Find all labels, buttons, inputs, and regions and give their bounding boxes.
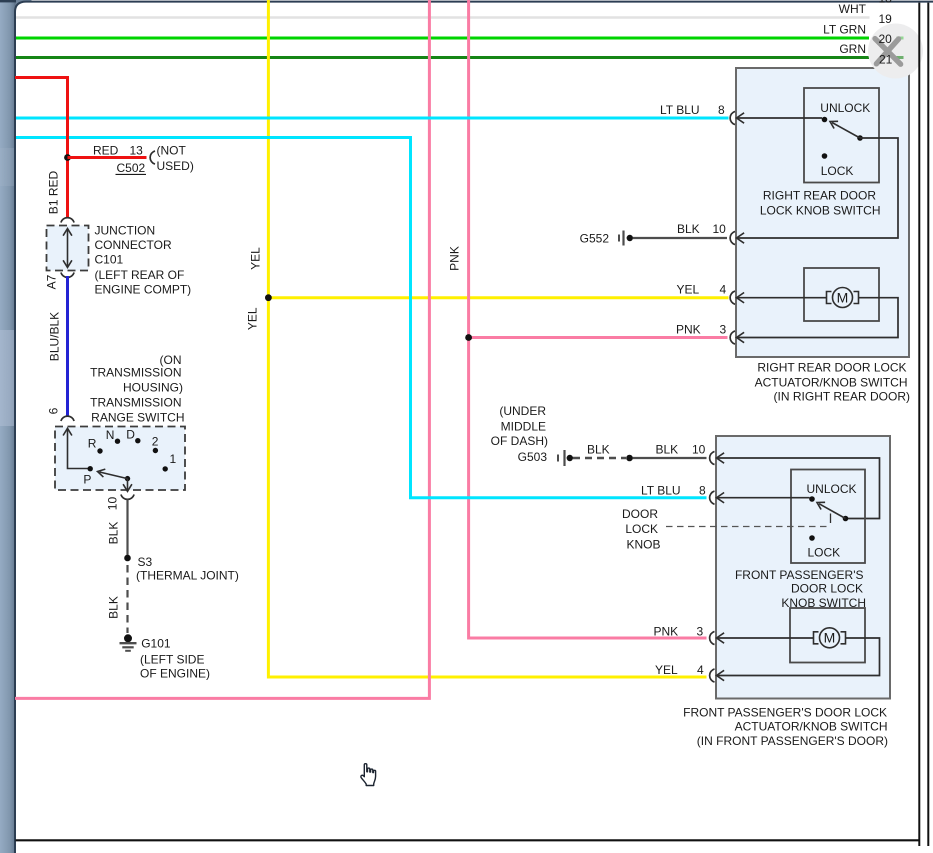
svg-text:19: 19 [879,12,893,26]
svg-text:C502: C502 [117,161,146,175]
wire YEL 4 into motor [730,291,735,304]
svg-text:YEL: YEL [677,283,700,297]
junction node on YEL wire [265,294,272,301]
svg-text:PNK: PNK [654,625,679,639]
svg-text:TRANSMISSION: TRANSMISSION [90,366,181,380]
ground G101 [124,634,132,642]
svg-text:GRN: GRN [839,42,866,56]
svg-text:LT GRN: LT GRN [823,22,866,36]
connector C502 [150,151,155,164]
svg-text:BLU/BLK: BLU/BLK [48,312,62,361]
transmission range switch (dashed box) [55,427,185,491]
svg-text:3: 3 [697,625,704,639]
svg-text:M: M [824,630,836,646]
splice S3 [124,555,131,562]
panel top-left rounded corner backdrop [16,0,32,16]
junction connector C101 (dashed box) [47,226,89,271]
motor M [820,628,840,648]
svg-text:D: D [126,428,135,442]
wire LT BLU 8 into box [710,491,715,504]
wire LT BLU 8 into box [730,111,735,124]
svg-text:YEL: YEL [249,247,263,270]
contact D [135,438,140,443]
svg-text:8: 8 [699,484,706,498]
motor M [833,288,853,308]
svg-text:LOCK KNOB SWITCH: LOCK KNOB SWITCH [760,204,881,218]
switch pivot [125,476,130,481]
svg-text:R: R [88,437,97,451]
diagram right border [918,3,920,846]
svg-text:RIGHT REAR DOOR LOCK: RIGHT REAR DOOR LOCK [757,361,906,375]
svg-text:UNLOCK: UNLOCK [820,101,870,115]
unlock contact [822,117,828,123]
svg-text:21: 21 [879,53,893,67]
svg-text:1: 1 [170,452,177,466]
svg-text:10: 10 [106,497,120,511]
svg-text:FRONT PASSENGER'S: FRONT PASSENGER'S [735,568,864,582]
wire YEL vertical from top [268,0,706,677]
door lock actuator motor box [804,268,879,321]
svg-text:USED): USED) [157,159,194,173]
dashed BLK wire from G503 [573,457,626,459]
svg-text:DOOR: DOOR [622,507,658,521]
front passenger door lock knob switch (inner box) [791,470,865,564]
svg-text:M: M [837,289,849,305]
svg-text:BLK: BLK [677,222,700,236]
junction node on RED wire [64,154,71,161]
svg-text:(LEFT SIDE: (LEFT SIDE [140,653,204,667]
connector arc below C101 [61,273,74,278]
svg-text:13: 13 [130,143,144,157]
unlock contact [809,496,815,502]
svg-text:BLK: BLK [587,443,610,457]
svg-text:KNOB: KNOB [626,537,660,551]
svg-text:PNK: PNK [676,323,701,337]
svg-text:(LEFT REAR OF: (LEFT REAR OF [95,268,185,282]
svg-text:B1 RED: B1 RED [47,170,61,214]
connector arc above C101 [61,218,74,223]
lock contact [822,153,828,159]
wire PNK #2 [469,0,707,638]
wire LT BLU #2 (to front passenger door) [16,138,707,498]
svg-text:10: 10 [692,443,706,457]
svg-text:ENGINE COMPT): ENGINE COMPT) [95,282,192,296]
svg-text:RANGE SWITCH: RANGE SWITCH [91,411,184,425]
contact 2 [153,448,158,453]
switch common contact [857,135,863,141]
contact N [115,439,120,444]
wire LT GRN (20) [16,37,869,40]
front passenger door lock actuator/knob switch box [716,436,890,699]
splice node [626,455,633,462]
svg-text:OF ENGINE): OF ENGINE) [140,667,210,681]
lever toward unlock [819,504,846,519]
svg-text:JUNCTION: JUNCTION [95,224,156,238]
svg-text:(IN RIGHT REAR DOOR): (IN RIGHT REAR DOOR) [774,390,910,404]
svg-text:(IN FRONT PASSENGER'S DOOR): (IN FRONT PASSENGER'S DOOR) [697,734,888,748]
wire BLK 10 [633,457,707,459]
wire RED from left edge [15,78,68,218]
LT GRN wire stub under close button [897,37,904,40]
svg-text:6: 6 [47,407,61,414]
svg-text:UNLOCK: UNLOCK [807,482,857,496]
switch input arm (up arrow) [68,430,89,469]
svg-text:CONNECTOR: CONNECTOR [95,238,172,252]
right rear door lock actuator/knob switch box [736,68,909,357]
svg-text:ACTUATOR/KNOB SWITCH: ACTUATOR/KNOB SWITCH [755,376,908,390]
window top bar [0,0,16,2]
svg-text:10: 10 [713,222,727,236]
svg-text:2: 2 [152,435,159,449]
contact R [97,448,102,453]
motor return route to PNK pin [737,298,899,338]
svg-text:LOCK: LOCK [625,522,658,536]
svg-text:8: 8 [718,103,725,117]
svg-text:(UNDER: (UNDER [499,404,546,418]
wire PNK #1 (to lower-left) [15,0,429,698]
svg-text:C101: C101 [95,252,124,266]
svg-text:LOCK: LOCK [808,546,841,560]
svg-text:ACTUATOR/KNOB SWITCH: ACTUATOR/KNOB SWITCH [735,720,888,734]
mouse cursor (hand pointer) [361,764,376,786]
svg-text:(NOT: (NOT [157,143,187,157]
svg-text:YEL: YEL [655,663,678,677]
route from switch common to BLK pin [737,138,899,238]
svg-text:G552: G552 [580,231,610,245]
svg-text:DOOR LOCK: DOOR LOCK [791,582,863,596]
svg-text:A7: A7 [45,274,59,289]
wire RED 13 stub to C502 [68,156,147,159]
svg-text:3: 3 [720,323,727,337]
switch output (down arrow) [127,479,129,490]
svg-text:20: 20 [879,32,893,46]
svg-text:N: N [106,428,115,442]
svg-text:PNK: PNK [448,246,462,271]
svg-text:BLK: BLK [107,522,121,545]
double-headed arrow inside C101 [67,230,69,267]
close button [868,24,923,79]
contact 1 [163,466,168,471]
wire BLU/BLK [66,276,69,416]
svg-text:BLK: BLK [107,596,121,619]
lock contact [809,535,815,541]
svg-text:RIGHT REAR DOOR: RIGHT REAR DOOR [763,189,876,203]
junction node on PNK #2 [465,334,472,341]
lever toward unlock [832,123,860,139]
svg-text:HOUSING): HOUSING) [123,381,183,395]
switch lever pointing at P [100,472,128,479]
connector arc above transmission range switch [61,416,74,421]
svg-text:G503: G503 [518,450,548,464]
diagram bottom border [16,839,920,841]
svg-text:4: 4 [720,283,727,297]
svg-text:LT BLU: LT BLU [641,484,681,498]
svg-text:TRANSMISSION: TRANSMISSION [90,396,181,410]
svg-text:P: P [83,473,91,487]
svg-text:OF DASH): OF DASH) [491,434,548,448]
GRN wire stub under close button [897,56,904,59]
svg-text:WHT: WHT [839,2,867,16]
wire LT BLU #1 (horizontal, to right rear door) [16,117,729,120]
ground G503 symbol [557,455,559,462]
svg-text:RED: RED [93,143,119,157]
svg-text:LT BLU: LT BLU [660,103,700,117]
svg-text:MIDDLE: MIDDLE [501,420,546,434]
lever tick [830,514,832,524]
svg-text:YEL: YEL [246,307,260,330]
wire BLK 10 from G552 [633,237,727,239]
svg-text:FRONT PASSENGER'S DOOR LOCK: FRONT PASSENGER'S DOOR LOCK [683,705,887,719]
BLK 10 pin into box, route to switch common [710,451,715,464]
door lock actuator motor box [790,608,865,663]
wire WHT (19) [16,16,870,19]
dashed BLK wire to G101 [126,565,128,633]
switch common contact [843,516,849,522]
svg-text:LOCK: LOCK [821,164,854,178]
contact P [88,466,93,471]
svg-text:BLK: BLK [656,443,679,457]
svg-text:(THERMAL JOINT): (THERMAL JOINT) [136,569,239,583]
svg-text:S3: S3 [138,555,153,569]
wire GRN (21) [16,56,869,59]
wire PNK 3 into motor [710,631,715,644]
wire BLK to S3 [126,500,128,559]
svg-text:4: 4 [697,663,704,677]
window right edge line [927,3,929,846]
connector arc below switch [121,495,134,500]
svg-text:18: 18 [879,0,893,6]
right rear door lock knob switch (inner box) [804,88,879,183]
svg-text:G101: G101 [141,637,171,651]
motor return route to YEL pin [717,638,880,676]
